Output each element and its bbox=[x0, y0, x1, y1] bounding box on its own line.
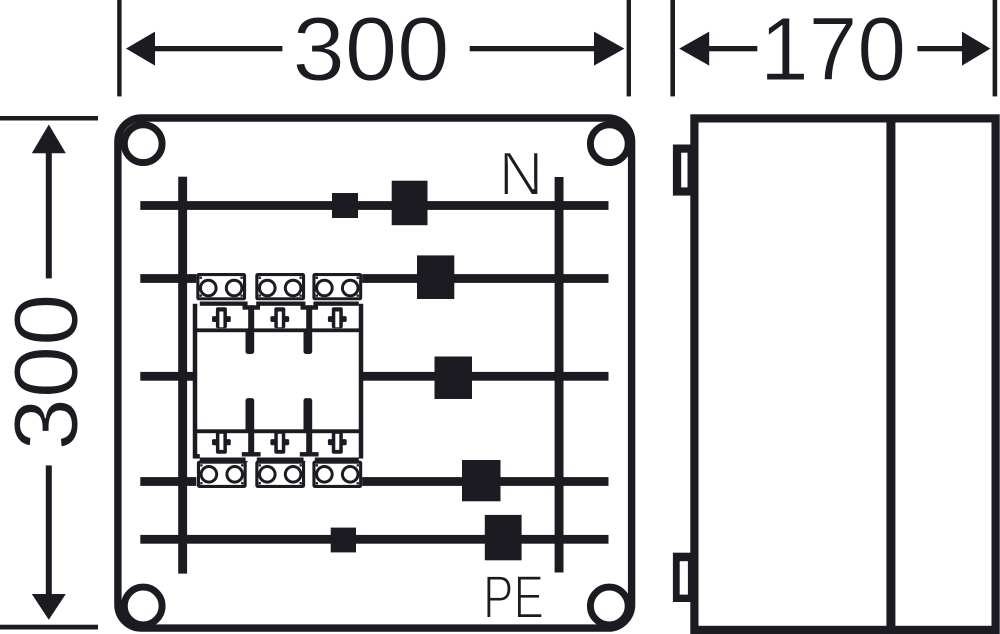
terminal block bottom 1 bbox=[197, 461, 247, 488]
large connection square on busbar L1 bbox=[417, 255, 454, 299]
top edge step pole 3 bbox=[313, 302, 358, 306]
side view cover split line bbox=[886, 118, 895, 630]
terminal block top 1 bbox=[196, 273, 246, 300]
terminal block bottom 3 bbox=[312, 461, 362, 488]
bottom edge step whitecover pole 3 bbox=[313, 453, 358, 457]
mounting hole bottom-right bbox=[590, 587, 628, 625]
busbar L3 (row 4) bbox=[140, 477, 608, 486]
terminal block bottom 2 bbox=[255, 461, 305, 488]
dimension 170 depth: left arrow bbox=[679, 32, 709, 66]
busbar N (row 1) bbox=[140, 201, 608, 210]
side view wall flange top bbox=[673, 145, 691, 196]
small terminal square on busbar PE bbox=[331, 528, 356, 553]
dimension 170 depth: right extension tick bbox=[993, 0, 998, 96]
dimension 300 height: bottom extension tick bbox=[0, 625, 98, 630]
busbar L2 (row 3) bbox=[140, 372, 608, 381]
large connection square on busbar L3 bbox=[462, 460, 501, 501]
fuse cartridge pole 2 bottom bbox=[270, 432, 289, 454]
busbar support right (vertical) bbox=[555, 177, 564, 573]
busbar PE (row 5) bbox=[140, 535, 608, 544]
dimension 170 depth: left extension tick bbox=[670, 0, 675, 96]
pole separator bar 2 lower bbox=[304, 398, 313, 431]
large connection square on busbar L2 bbox=[435, 357, 473, 400]
top edge step whitecover bbox=[197, 300, 358, 309]
svg-text:170: 170 bbox=[760, 0, 906, 100]
svg-text:300: 300 bbox=[0, 294, 97, 451]
terminal block top 3 bbox=[312, 273, 362, 300]
svg-text:300: 300 bbox=[293, 0, 450, 100]
side view wall flange bottom bbox=[673, 553, 691, 602]
svg-text:PE: PE bbox=[483, 563, 544, 631]
busbar support left (vertical) bbox=[178, 177, 187, 574]
dimension 300 width: left arrow bbox=[126, 32, 155, 66]
enclosure front view outline bbox=[118, 118, 632, 628]
terminal block top 2 bbox=[255, 273, 305, 300]
mounting hole top-left bbox=[124, 125, 162, 163]
fuse cartridge pole 1 bottom bbox=[212, 432, 231, 454]
mounting hole bottom-left bbox=[124, 587, 162, 625]
large connection square on busbar PE bbox=[485, 515, 522, 560]
pole separator bar 1 lower bbox=[246, 398, 255, 431]
pole separator bar 2 upper bbox=[301, 305, 319, 309]
dimension 300 width: left extension tick bbox=[117, 0, 121, 96]
mounting hole top-right bbox=[590, 125, 628, 163]
bottom edge step whitecover pole 2 bbox=[256, 453, 305, 457]
fuse switch body outline bbox=[195, 306, 361, 456]
fuse switch inner line upper bbox=[195, 328, 361, 332]
top edge step pole 2 bbox=[256, 302, 305, 306]
bottom edge step whitecover pole 1 bbox=[200, 453, 248, 457]
dimension 300 width: right arrow bbox=[470, 46, 596, 51]
fuse cartridge pole 3 bottom bbox=[328, 432, 347, 454]
fuse cartridge pole 2 top bbox=[270, 307, 289, 328]
pole separator bar 1 upper bbox=[243, 305, 261, 309]
large connection square on busbar N bbox=[392, 181, 428, 226]
dimension 170 depth: right arrow bbox=[917, 46, 964, 51]
fuse switch inner line lower bbox=[195, 429, 361, 433]
dimension 300 height: up arrow bbox=[32, 125, 66, 154]
fuse switch component: white background mask bbox=[196, 271, 362, 492]
top edge step pole 1 bbox=[200, 302, 248, 306]
fuse cartridge pole 3 top bbox=[328, 307, 347, 328]
side view enclosure outline bbox=[694, 118, 995, 630]
dimension 300 height: top extension tick bbox=[0, 116, 98, 121]
dimension 300 width: right extension tick bbox=[627, 0, 631, 96]
svg-text:N: N bbox=[499, 140, 544, 209]
dimension 300 height: down arrow bbox=[46, 465, 52, 595]
small terminal square on busbar N bbox=[332, 193, 358, 218]
fuse cartridge pole 1 top bbox=[212, 307, 231, 328]
busbar L1 (row 2) bbox=[140, 274, 608, 283]
